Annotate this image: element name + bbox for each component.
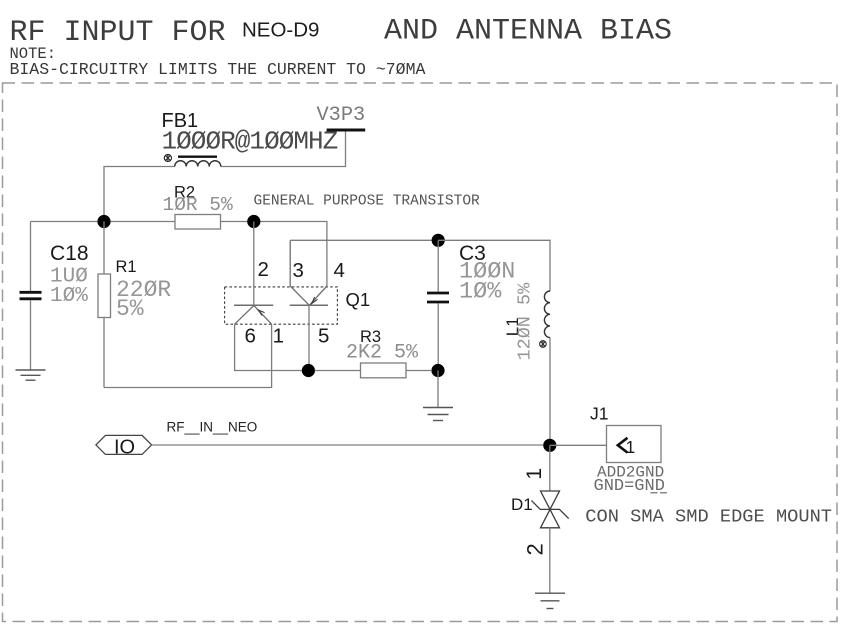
svg-text:BIAS-CIRCUITRY LIMITS THE CURR: BIAS-CIRCUITRY LIMITS THE CURRENT TO ~7Ø… bbox=[10, 60, 426, 79]
TVS diode D1 bbox=[532, 491, 569, 528]
svg-text:1: 1 bbox=[273, 324, 284, 347]
R1 labels bbox=[116, 258, 172, 322]
wire: FB1 to V3P3 bbox=[221, 131, 346, 167]
svg-text:4: 4 bbox=[334, 259, 345, 282]
node A junction dot bbox=[97, 215, 110, 228]
svg-text:6: 6 bbox=[245, 324, 256, 347]
resistor R3 bbox=[315, 328, 432, 378]
node F junction dot (J1) bbox=[543, 439, 556, 452]
svg-text:5: 5 bbox=[318, 324, 329, 347]
wire: pin6 down and across to node C bbox=[235, 324, 309, 370]
Q1 right emitter arrow bbox=[312, 297, 318, 304]
L1 polarity mark bbox=[540, 341, 547, 348]
svg-text:1: 1 bbox=[522, 468, 546, 480]
Q1 left half: pin2 collector wire bbox=[253, 222, 255, 306]
wire: node F down to D1 bbox=[549, 445, 551, 491]
svg-text:V3P3: V3P3 bbox=[317, 104, 366, 127]
capacitor C18 bbox=[20, 222, 42, 371]
svg-text:2: 2 bbox=[258, 258, 269, 281]
node B junction dot (R2 right) bbox=[247, 215, 260, 228]
transistor Q1 dashed outline box bbox=[225, 287, 338, 324]
node E junction dot (R3 right / C3 bottom) bbox=[431, 364, 444, 377]
inductor L1 bbox=[544, 291, 550, 439]
Q1 left base bar bbox=[234, 304, 273, 306]
svg-text:J1: J1 bbox=[590, 404, 608, 424]
ground (D1/J1) bbox=[535, 593, 565, 608]
svg-text:NEO-D9: NEO-D9 bbox=[242, 19, 319, 42]
wire: node E down to ground bbox=[437, 371, 439, 408]
power symbol V3P3 bbox=[317, 104, 366, 130]
svg-text:1ØR 5%: 1ØR 5% bbox=[163, 194, 234, 216]
svg-text:1ØØØR@1ØØMHZ: 1ØØØR@1ØØMHZ bbox=[162, 127, 338, 157]
svg-text:RF__IN__NEO: RF__IN__NEO bbox=[167, 420, 258, 435]
ferrite bead FB1 bbox=[175, 157, 221, 167]
J1 attribute text bbox=[594, 464, 668, 497]
ground (C18) bbox=[16, 370, 46, 380]
Q1 right half: pin4 lead bbox=[309, 286, 327, 305]
note text bbox=[10, 45, 426, 79]
ground (C3/R3) bbox=[423, 408, 453, 421]
svg-text:2: 2 bbox=[523, 543, 548, 555]
capacitor C3 bbox=[427, 240, 449, 370]
wire: main horizontal net y=221.5 from C18 branch to pin4 corner bbox=[31, 222, 327, 287]
Q1 right half: pin3 lead bbox=[290, 240, 309, 305]
node C junction dot (pin5/pin6/R3) bbox=[302, 364, 315, 377]
svg-text:Q1: Q1 bbox=[346, 289, 371, 310]
C3 labels bbox=[459, 242, 515, 305]
svg-text:5%: 5% bbox=[116, 296, 144, 322]
Q1 right base bar bbox=[290, 304, 328, 306]
wire: pin3 net across to C3 node bbox=[290, 239, 438, 241]
svg-text:1: 1 bbox=[626, 437, 636, 457]
node D junction dot (C3 top) bbox=[432, 234, 445, 247]
C18 labels bbox=[50, 242, 89, 308]
svg-text:R1: R1 bbox=[116, 258, 137, 276]
svg-text:CON SMA SMD EDGE MOUNT: CON SMA SMD EDGE MOUNT bbox=[585, 506, 832, 528]
wire: node F to J1 bbox=[550, 444, 607, 446]
svg-text:C18: C18 bbox=[50, 242, 89, 265]
resistor R2 bbox=[163, 183, 234, 229]
svg-text:IO: IO bbox=[114, 436, 135, 458]
svg-text:3: 3 bbox=[293, 259, 304, 282]
wire: C3 node to L1 top bbox=[438, 240, 550, 291]
title text bbox=[10, 15, 673, 51]
svg-text:12ØN 5%: 12ØN 5% bbox=[515, 282, 536, 361]
FB1 polarity mark bbox=[164, 154, 171, 161]
Q1 left chevron legs to pins 6 and 1 bbox=[235, 306, 272, 325]
svg-text:2K2 5%: 2K2 5% bbox=[346, 342, 419, 365]
resistor R1 bbox=[98, 222, 111, 388]
wire: D1 to ground bbox=[549, 528, 551, 593]
FB1 labels bbox=[162, 110, 338, 157]
svg-text:D1: D1 bbox=[511, 495, 533, 514]
svg-text:GENERAL PURPOSE TRANSISTOR: GENERAL PURPOSE TRANSISTOR bbox=[254, 194, 481, 210]
connector J1 bbox=[590, 404, 661, 463]
Q1 left emitter arrow bbox=[258, 310, 264, 316]
svg-text:AND ANTENNA BIAS: AND ANTENNA BIAS bbox=[384, 15, 672, 49]
L1 labels (rotated) bbox=[503, 282, 536, 361]
wire: RF input net bbox=[152, 444, 543, 446]
svg-text:1Ø%: 1Ø% bbox=[459, 278, 502, 305]
wire: bottom return y=387.5 from R1 to Q1 pin1 bbox=[104, 324, 272, 387]
svg-text:1Ø%: 1Ø% bbox=[50, 285, 88, 308]
wire: FB1 branch up from node A bbox=[104, 167, 175, 222]
port IO hexagon bbox=[96, 435, 152, 458]
wire: pin5 down to node C bbox=[308, 305, 310, 370]
